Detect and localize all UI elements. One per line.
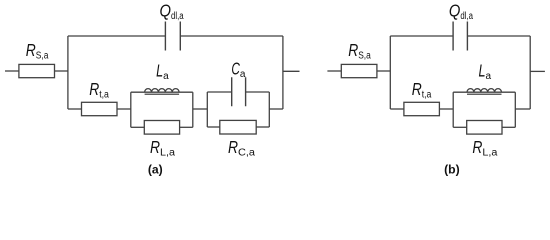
wire top branch left (b) bbox=[390, 35, 453, 37]
wire loop2 bottom right (a) bbox=[256, 126, 269, 128]
capacitor C_a plates (a) bbox=[232, 77, 246, 106]
inductor L_a coil (b) bbox=[467, 89, 501, 93]
svg-text:RS,a: RS,a bbox=[348, 40, 371, 62]
wire loop1 bottom right (b) bbox=[502, 126, 515, 128]
wire loop1 top (b) bbox=[453, 91, 515, 93]
svg-text:La: La bbox=[156, 61, 169, 83]
capacitor Q_dl,a plates (b) bbox=[453, 22, 467, 51]
svg-text:(b): (b) bbox=[444, 163, 460, 177]
svg-text:Ca: Ca bbox=[231, 58, 246, 80]
svg-text:RC,a: RC,a bbox=[228, 137, 255, 159]
resistor R_L,a (a) bbox=[144, 121, 179, 135]
svg-text:RS,a: RS,a bbox=[26, 40, 49, 62]
svg-text:La: La bbox=[479, 61, 492, 83]
wire loop1 left vertical (b) bbox=[452, 92, 454, 127]
wire bottom branch 1 (b) bbox=[390, 108, 404, 110]
wire loop1 right vertical (b) bbox=[514, 92, 516, 127]
wire R_t,a to loop1 (a) bbox=[117, 108, 131, 110]
resistor R_t,a (a) bbox=[82, 102, 118, 115]
resistor R_S,a (a) bbox=[19, 64, 55, 77]
node C left vertical (b) bbox=[389, 36, 391, 109]
wire loop1 bottom right (a) bbox=[180, 126, 193, 128]
resistor R_L,a (b) bbox=[467, 121, 502, 135]
svg-text:RL,a: RL,a bbox=[472, 137, 497, 159]
svg-text:(a): (a) bbox=[148, 163, 163, 177]
resistor R_S,a (b) bbox=[341, 64, 377, 77]
resistor R_C,a (a) bbox=[220, 120, 256, 134]
wire loop1 bottom left (a) bbox=[131, 126, 145, 128]
svg-text:Qdl,a: Qdl,a bbox=[160, 0, 184, 22]
wire output stub (a) bbox=[283, 70, 300, 72]
svg-text:RL,a: RL,a bbox=[150, 137, 175, 159]
wire input stub circuit b bbox=[327, 70, 341, 72]
wire loop1 left vertical (a) bbox=[130, 92, 132, 127]
node D right vertical (b) bbox=[529, 36, 531, 109]
inductor L_a coil (a) bbox=[145, 89, 179, 93]
wire loop2 bottom left (a) bbox=[207, 126, 220, 128]
wire top branch left (a) bbox=[68, 35, 165, 37]
wire bottom branch 1 (a) bbox=[68, 108, 82, 110]
wire loop2 top right (a) bbox=[246, 91, 270, 93]
svg-text:Qdl,a: Qdl,a bbox=[449, 0, 473, 22]
wire R_t,a to loop1 (b) bbox=[439, 108, 453, 110]
inductor L_a core bar (b) bbox=[467, 93, 502, 95]
svg-text:Rt,a: Rt,a bbox=[412, 79, 432, 101]
wire loop2 top left (a) bbox=[207, 91, 231, 93]
wire loop2 left vertical (a) bbox=[206, 92, 208, 127]
inductor L_a core bar (a) bbox=[145, 93, 180, 95]
wire R_S,a to node C (b) bbox=[377, 70, 390, 72]
node B right vertical (a) bbox=[282, 36, 284, 109]
wire output stub (b) bbox=[530, 70, 545, 72]
wire loop1 top (a) bbox=[131, 91, 193, 93]
node A left vertical (a) bbox=[67, 36, 69, 109]
capacitor Q_dl,a plates (a) bbox=[165, 22, 180, 51]
wire loop1 to loop2 (a) bbox=[193, 108, 208, 110]
wire loop1 bottom left (b) bbox=[453, 126, 467, 128]
wire loop1 to node D (b) bbox=[515, 108, 530, 110]
wire input stub circuit a bbox=[5, 70, 19, 72]
wire top branch right (a) bbox=[180, 35, 283, 37]
wire loop2 right vertical (a) bbox=[268, 92, 270, 127]
wire R_S,a to node A (a) bbox=[55, 70, 68, 72]
wire loop1 right vertical (a) bbox=[192, 92, 194, 127]
svg-text:Rt,a: Rt,a bbox=[89, 79, 109, 101]
resistor R_t,a (b) bbox=[404, 102, 440, 115]
wire loop2 to node B (a) bbox=[269, 108, 283, 110]
wire top branch right (b) bbox=[467, 35, 530, 37]
